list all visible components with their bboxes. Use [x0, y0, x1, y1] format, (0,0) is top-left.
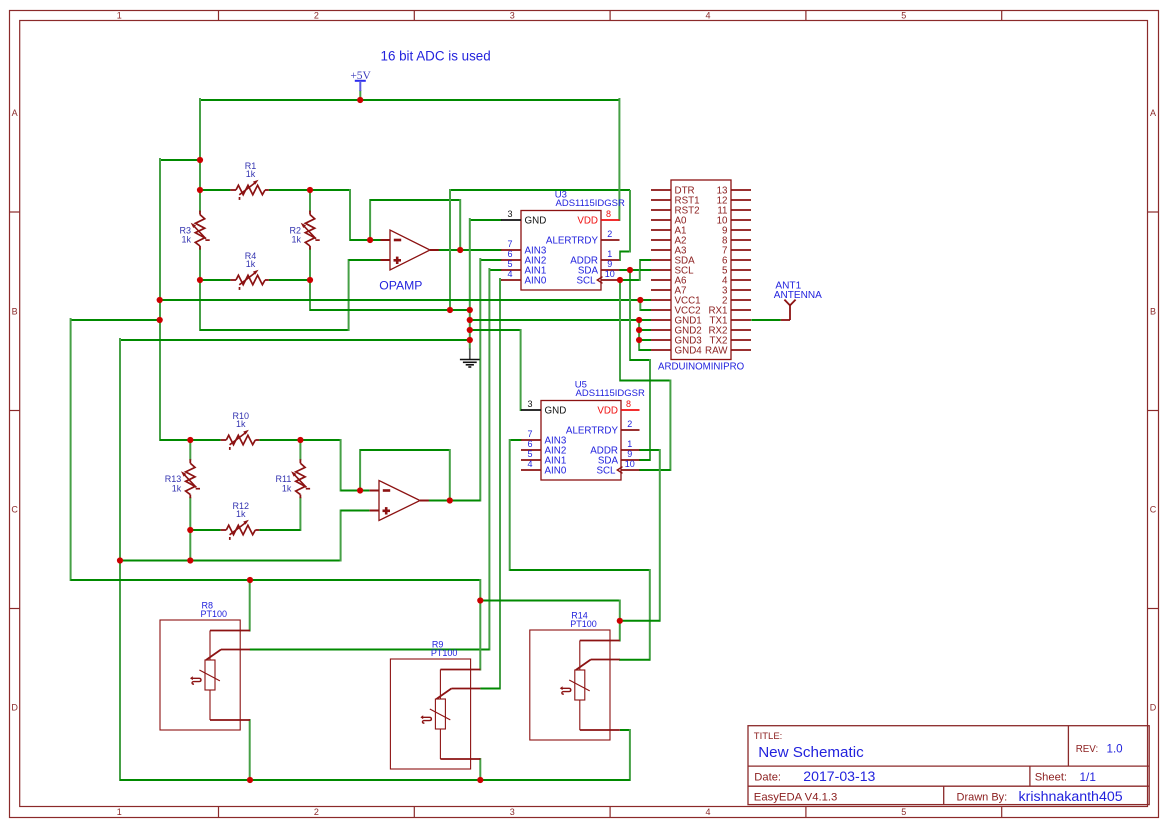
svg-text:3: 3	[507, 209, 512, 219]
svg-text:4: 4	[705, 807, 710, 817]
svg-text:ANTENNA: ANTENNA	[774, 290, 822, 301]
svg-text:10: 10	[605, 269, 615, 279]
svg-text:2: 2	[607, 229, 612, 239]
svg-text:1/1: 1/1	[1080, 770, 1096, 784]
svg-text:ARDUINOMINIPRO: ARDUINOMINIPRO	[658, 362, 745, 373]
svg-text:TITLE:: TITLE:	[754, 731, 783, 742]
svg-text:SCL: SCL	[576, 275, 596, 286]
svg-text:1k: 1k	[172, 483, 182, 493]
svg-text:EasyEDA V4.1.3: EasyEDA V4.1.3	[754, 791, 838, 803]
svg-text:5: 5	[507, 259, 512, 269]
svg-text:1.0: 1.0	[1107, 742, 1123, 755]
svg-text:4: 4	[507, 269, 512, 279]
svg-text:ADS1115IDGSR: ADS1115IDGSR	[556, 198, 625, 209]
svg-text:Drawn By:: Drawn By:	[957, 791, 1008, 803]
svg-text:4: 4	[705, 11, 710, 21]
svg-text:1: 1	[117, 11, 122, 21]
svg-text:A: A	[12, 108, 18, 118]
svg-text:ALERTRDY: ALERTRDY	[546, 235, 599, 246]
svg-text:8: 8	[606, 209, 611, 219]
svg-text:5: 5	[527, 449, 532, 459]
svg-text:OPAMP: OPAMP	[379, 278, 422, 292]
svg-text:3: 3	[527, 399, 532, 409]
svg-text:5: 5	[901, 11, 906, 21]
svg-text:GND: GND	[545, 405, 567, 416]
svg-text:9: 9	[627, 449, 632, 459]
svg-text:1: 1	[627, 439, 632, 449]
svg-text:New Schematic: New Schematic	[758, 744, 864, 761]
svg-text:C: C	[11, 505, 18, 515]
svg-text:1: 1	[117, 807, 122, 817]
svg-text:4: 4	[527, 459, 532, 469]
svg-text:PT100: PT100	[570, 619, 597, 629]
svg-text:VDD: VDD	[597, 405, 618, 416]
svg-text:PT100: PT100	[431, 648, 458, 658]
svg-text:+5V: +5V	[350, 70, 371, 82]
svg-text:2: 2	[627, 419, 632, 429]
svg-text:AIN0: AIN0	[545, 465, 567, 476]
svg-text:3: 3	[510, 807, 515, 817]
svg-text:2: 2	[314, 11, 319, 21]
svg-text:2017-03-13: 2017-03-13	[803, 768, 875, 784]
svg-text:AIN0: AIN0	[525, 275, 547, 286]
svg-text:5: 5	[901, 807, 906, 817]
svg-text:A: A	[1150, 108, 1156, 118]
svg-text:VDD: VDD	[577, 215, 598, 226]
svg-text:1k: 1k	[181, 235, 191, 245]
svg-text:Date:: Date:	[754, 772, 781, 784]
svg-text:8: 8	[626, 399, 631, 409]
svg-text:REV:: REV:	[1076, 744, 1099, 755]
svg-text:1k: 1k	[291, 235, 301, 245]
svg-text:GND4: GND4	[675, 345, 703, 356]
svg-text:2: 2	[314, 807, 319, 817]
svg-text:9: 9	[607, 259, 612, 269]
svg-text:16 bit ADC is used: 16 bit ADC is used	[381, 48, 491, 63]
svg-text:PT100: PT100	[201, 609, 228, 619]
svg-text:3: 3	[510, 11, 515, 21]
svg-text:B: B	[1150, 307, 1156, 317]
svg-text:GND: GND	[525, 215, 547, 226]
svg-text:6: 6	[527, 439, 532, 449]
svg-text:RAW: RAW	[705, 345, 728, 356]
svg-text:SCL: SCL	[596, 465, 616, 476]
svg-text:6: 6	[507, 249, 512, 259]
svg-text:ADS1115IDGSR: ADS1115IDGSR	[576, 388, 645, 399]
svg-text:Sheet:: Sheet:	[1035, 772, 1067, 784]
svg-text:10: 10	[625, 459, 635, 469]
svg-text:7: 7	[527, 429, 532, 439]
svg-text:B: B	[12, 307, 18, 317]
svg-text:1k: 1k	[236, 419, 246, 429]
svg-text:1k: 1k	[236, 509, 246, 519]
svg-text:1k: 1k	[282, 483, 292, 493]
svg-text:C: C	[1150, 505, 1157, 515]
svg-text:1k: 1k	[246, 169, 256, 179]
svg-text:7: 7	[507, 239, 512, 249]
svg-text:1k: 1k	[246, 259, 256, 269]
svg-text:ALERTRDY: ALERTRDY	[566, 425, 619, 436]
svg-text:1: 1	[607, 249, 612, 259]
svg-text:D: D	[11, 703, 18, 713]
svg-text:D: D	[1150, 703, 1157, 713]
svg-text:krishnakanth405: krishnakanth405	[1019, 789, 1123, 805]
